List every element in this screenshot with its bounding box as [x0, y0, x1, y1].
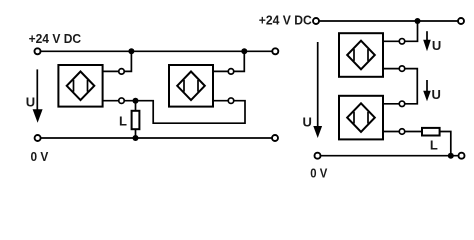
- voltage arrow U across sensor B4: [423, 80, 431, 101]
- pin circle: B1 pin 2: [119, 98, 125, 104]
- pin circle: B2 pin 2: [228, 98, 234, 104]
- wire: sensor B1 top pin to +24V rail: [103, 51, 132, 71]
- wire: output node down to load L: [135, 101, 137, 111]
- svg-text:+24 V DC: +24 V DC: [259, 12, 313, 27]
- wire: 0V return rail (left circuit): [38, 137, 275, 139]
- pin circle: B4 pin 2: [399, 129, 405, 135]
- sensor B4 (proximity switch, right circuit): [339, 96, 383, 140]
- load resistor L (left circuit): [132, 111, 140, 129]
- pin circle: B3 pin 2: [399, 66, 405, 72]
- wire: load L to 0V rail: [440, 132, 451, 156]
- junction: output node at load L: [133, 98, 139, 104]
- wire: load L to 0V rail: [135, 129, 137, 138]
- wire: +24V supply rail (left circuit): [38, 50, 276, 52]
- svg-text:0 V: 0 V: [310, 166, 327, 181]
- svg-text:+24 V DC: +24 V DC: [29, 31, 82, 46]
- wire: 0V return rail (right circuit): [318, 155, 462, 157]
- pin circle: B3 pin 1: [399, 39, 405, 45]
- terminal 0V (right circuit, left end): [315, 153, 321, 159]
- terminal 0V (left circuit, left end): [35, 135, 41, 141]
- junction: load L on 0V rail: [448, 153, 454, 159]
- pin circle: B4 pin 1: [399, 101, 405, 107]
- wire: +24V rail to sensor B3 top pin: [383, 21, 418, 41]
- wire: sensor B3 bottom pin to sensor B4 top pin: [383, 69, 417, 104]
- terminal 0V (right circuit, right end): [459, 153, 465, 159]
- wire: sensor B1 bottom pin to output node: [103, 100, 136, 102]
- wire: sensor B2 top pin to +24V rail: [213, 51, 244, 71]
- junction: B1 feed on +24V rail: [128, 48, 134, 54]
- svg-text:U: U: [303, 114, 312, 129]
- supply voltage arrow U (right circuit): [313, 42, 322, 138]
- terminal +24V (right circuit, left end): [313, 18, 319, 24]
- terminal +24V (left circuit, right end): [272, 48, 278, 54]
- voltage arrow U across sensor B3: [423, 31, 431, 51]
- junction: B2 feed on +24V rail: [241, 48, 247, 54]
- svg-text:U: U: [432, 38, 441, 53]
- terminal 0V (left circuit, right end): [272, 135, 278, 141]
- svg-text:L: L: [119, 113, 127, 128]
- load resistor L (right circuit): [422, 128, 440, 136]
- wire: output loop joining sensor B2 bottom pin to output node: [136, 101, 246, 124]
- terminal +24V (left circuit, left end): [35, 48, 41, 54]
- wire: +24V supply rail (right circuit): [316, 20, 461, 22]
- junction: load L on 0V rail: [133, 135, 139, 141]
- terminal +24V (right circuit, right end): [458, 18, 464, 24]
- svg-text:U: U: [432, 87, 441, 102]
- pin circle: B1 pin 1: [119, 69, 125, 75]
- wire: sensor B4 bottom pin to load L: [383, 131, 422, 133]
- sensor B1 (proximity switch, left circuit): [58, 65, 102, 107]
- svg-text:U: U: [26, 95, 35, 110]
- pin circle: B2 pin 1: [228, 69, 234, 75]
- svg-text:L: L: [430, 138, 438, 153]
- svg-text:0 V: 0 V: [31, 149, 49, 164]
- supply voltage arrow U (left circuit): [33, 69, 43, 122]
- sensor B3 (proximity switch, right circuit): [339, 33, 383, 77]
- junction: B3 feed on +24V rail: [415, 18, 421, 24]
- sensor B2 (proximity switch, left circuit): [169, 65, 213, 107]
